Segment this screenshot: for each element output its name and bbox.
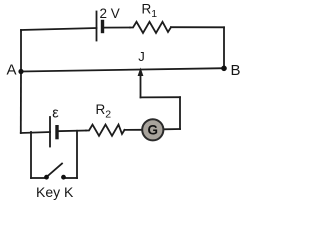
node A junction dot: [18, 69, 23, 74]
battery 2V short plate: [101, 22, 104, 32]
svg-text:G: G: [148, 123, 159, 138]
wire galvanometer to right vertical: [164, 128, 180, 130]
cell epsilon long plate: [49, 117, 51, 147]
svg-text:B: B: [231, 62, 241, 79]
wire AB (potentiometer wire): [21, 68, 224, 71]
jockey J arrowhead: [138, 68, 144, 77]
cell epsilon short plate: [55, 127, 58, 138]
battery 2V long plate: [96, 12, 98, 41]
resistor R1 zigzag: [130, 22, 171, 33]
wire left vertical (A down to bottom branch): [20, 72, 22, 134]
wire right vertical of galvanometer branch: [179, 97, 181, 129]
key branch right vertical: [76, 131, 78, 178]
key contact dot right: [61, 175, 66, 180]
wire left vertical top (corner to A): [20, 30, 22, 72]
galvanometer G body: [142, 119, 163, 140]
key contact dot left: [44, 175, 49, 180]
wire R1 to top-right corner: [171, 26, 224, 28]
key branch left vertical: [30, 132, 32, 178]
svg-text:ε: ε: [52, 105, 59, 121]
wire top-left segment: [21, 28, 97, 31]
wire horizontal to jockey: [141, 96, 181, 98]
node B junction dot: [221, 66, 227, 72]
wire battery to R1: [103, 27, 131, 29]
key lever: [47, 164, 63, 178]
wire R2 to galvanometer: [125, 129, 143, 131]
wire right vertical to B: [223, 27, 225, 68]
wire key bottom left segment: [31, 177, 45, 179]
wire key bottom right segment: [65, 177, 78, 179]
wire cell to R2 (with junction at x=77): [57, 130, 86, 133]
wire bottom-left horizontal to cell: [21, 132, 50, 133]
svg-text:A: A: [7, 62, 17, 79]
svg-text:Key K: Key K: [36, 184, 74, 200]
wire jockey vertical: [140, 74, 142, 97]
resistor R2 zigzag: [86, 125, 125, 136]
svg-text:J: J: [138, 49, 145, 64]
svg-text:2 V: 2 V: [100, 6, 120, 21]
